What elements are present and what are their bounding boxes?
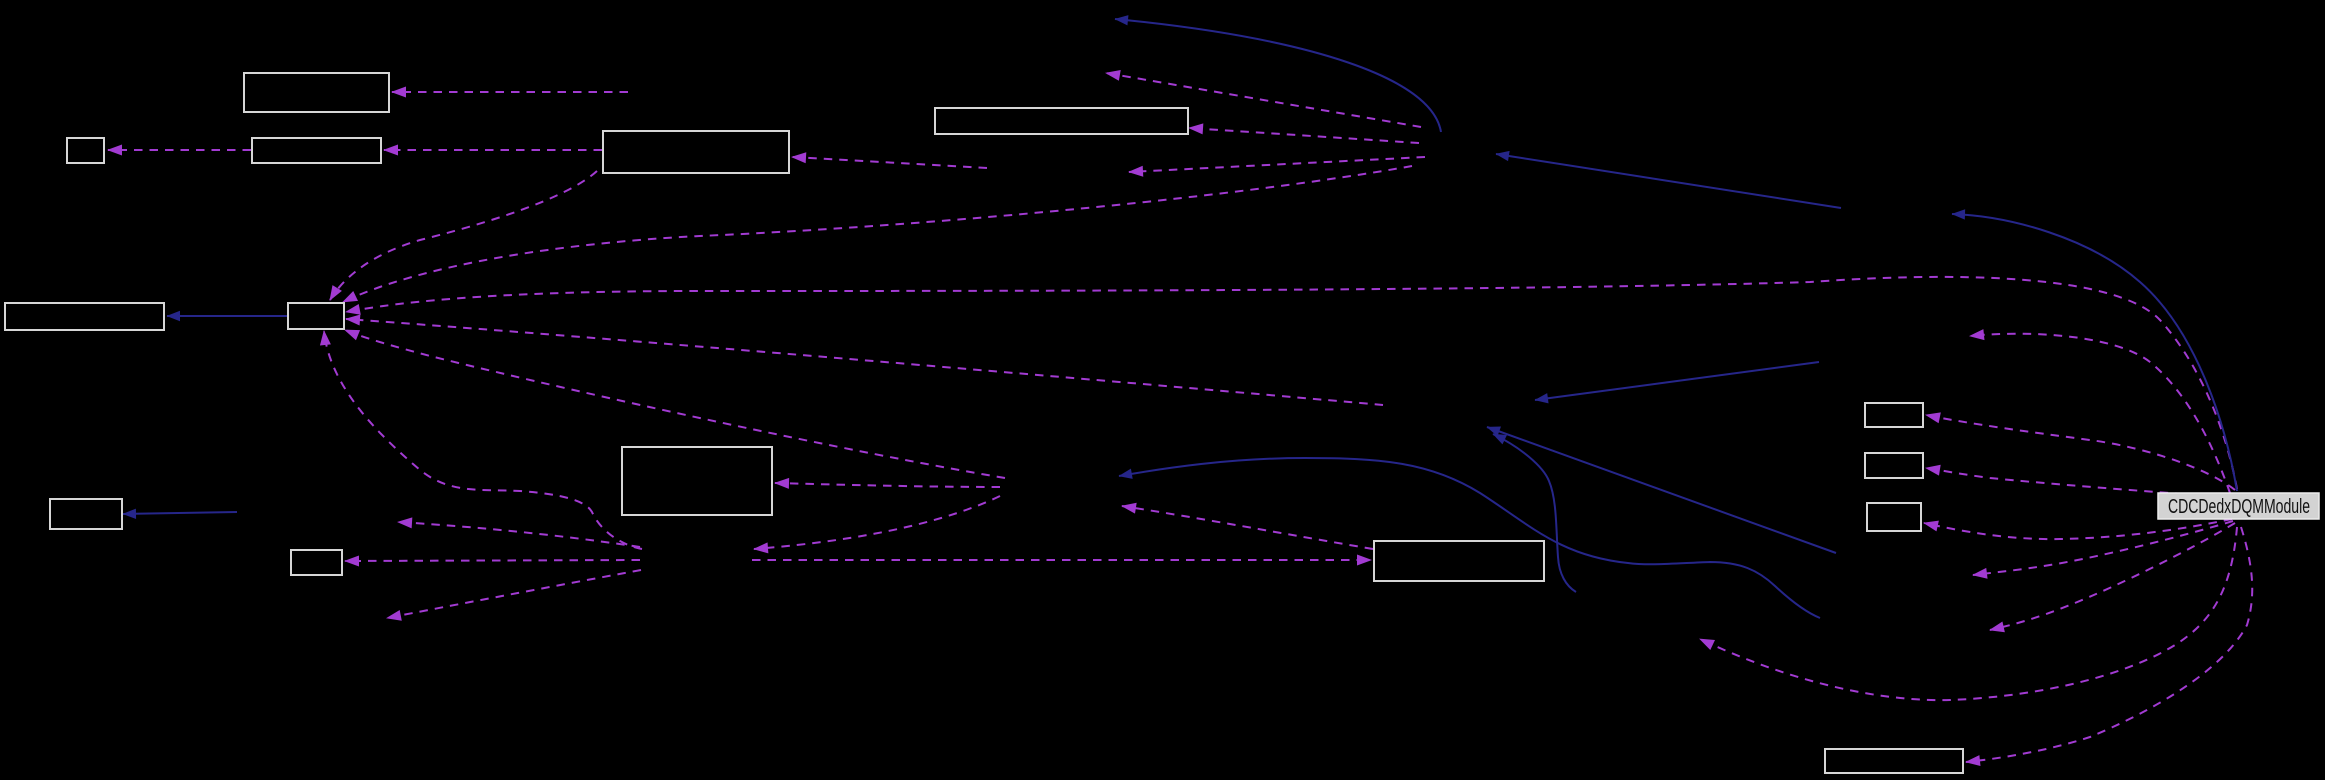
wire: dashed edge N12 to box4 xyxy=(792,157,987,168)
wire: blue curve F1 to top target xyxy=(1115,19,1441,132)
node box7 xyxy=(288,303,344,329)
wire: dashed long curve F1 to box7 xyxy=(343,166,1412,302)
wire: dashed curve CDCDedxDQMModule to T4 xyxy=(1990,523,2235,630)
node box4 xyxy=(603,131,789,173)
wire: dashed curve CDCDedxDQMModule to box13 xyxy=(1926,468,2230,497)
node box15 xyxy=(1825,749,1963,773)
wire: dashed edge box4 to box3 xyxy=(384,149,602,151)
node box11 xyxy=(1374,541,1544,581)
node box9 xyxy=(291,550,342,575)
wire: dashed edge hub2 to box9 xyxy=(345,560,640,561)
wire: blue line to N9 lower xyxy=(1487,427,1836,553)
node box2 xyxy=(67,138,104,163)
wire: dashed edge N10 to hub2 xyxy=(754,496,1000,549)
node box12 xyxy=(1865,403,1923,427)
wire: blue curve CDCDedxDQMModule to N7 xyxy=(1952,214,2237,491)
node box5 xyxy=(935,108,1188,134)
wire: dashed curve CDCDedxDQMModule to N8 xyxy=(1970,334,2230,493)
wire: dashed edge hub2 to T1 xyxy=(398,522,640,547)
wire: dashed edge F1 to top-left target xyxy=(1106,73,1421,127)
wire: dashed edge box11 to N10 xyxy=(1122,506,1373,549)
node box3 xyxy=(252,138,381,163)
wire: dashed arc CDCDedxDQMModule to box15 xyxy=(1966,527,2252,762)
node box1 xyxy=(244,73,389,112)
node box13 xyxy=(1865,453,1923,478)
wire: blue long curve to N10 xyxy=(1119,458,1820,618)
node CDCDedxDQMModule (highlighted) xyxy=(2158,493,2319,519)
wire: dashed curve CDCDedxDQMModule to box14 xyxy=(1924,519,2232,539)
node box14 xyxy=(1867,503,1921,531)
wire: dashed edge N4 to box1 xyxy=(392,91,628,93)
wire: dashed edge N10 to box10 xyxy=(775,483,1000,487)
svg-text:CDCDedxDQMModule: CDCDedxDQMModule xyxy=(2168,496,2310,518)
wire: dashed edge N5 to box7 xyxy=(346,319,1383,405)
wire: dashed curve box4 to box7 xyxy=(330,171,597,300)
wire: dashed edge box3 to box2 xyxy=(108,149,251,151)
wire: blue wiggle line to N9 xyxy=(1493,434,1576,592)
wire: dashed edge F1 to mid target xyxy=(1129,157,1425,172)
wire: blue line N8 to N5 xyxy=(1535,362,1819,400)
wire: dashed edge hub2 to T2 xyxy=(387,570,641,618)
wire: dashed edge hub2 to box11 xyxy=(752,559,1371,561)
wire: dashed arc CDCDedxDQMModule to T5 xyxy=(1700,527,2237,700)
node box8 xyxy=(50,499,122,529)
wire: dashed edge F1 to box5 xyxy=(1189,128,1419,143)
wire: blue edge box7 to box6 xyxy=(167,315,287,317)
node box6 xyxy=(5,303,164,330)
wire: dashed curve CDCDedxDQMModule to T3 xyxy=(1973,521,2233,575)
wire: blue edge to box8 xyxy=(123,512,237,514)
node box10 xyxy=(622,447,772,515)
wire: dashed long curve CDCDedxDQMModule to box7 xyxy=(346,277,2237,489)
wire: dashed curve CDCDedxDQMModule to box12 xyxy=(1926,415,2235,490)
wire: dashed edge N10 to box7 xyxy=(345,330,1005,478)
wire: blue line N7 to F1 xyxy=(1496,154,1841,208)
wire: dashed S-curve hub2 to box7 xyxy=(324,331,642,549)
